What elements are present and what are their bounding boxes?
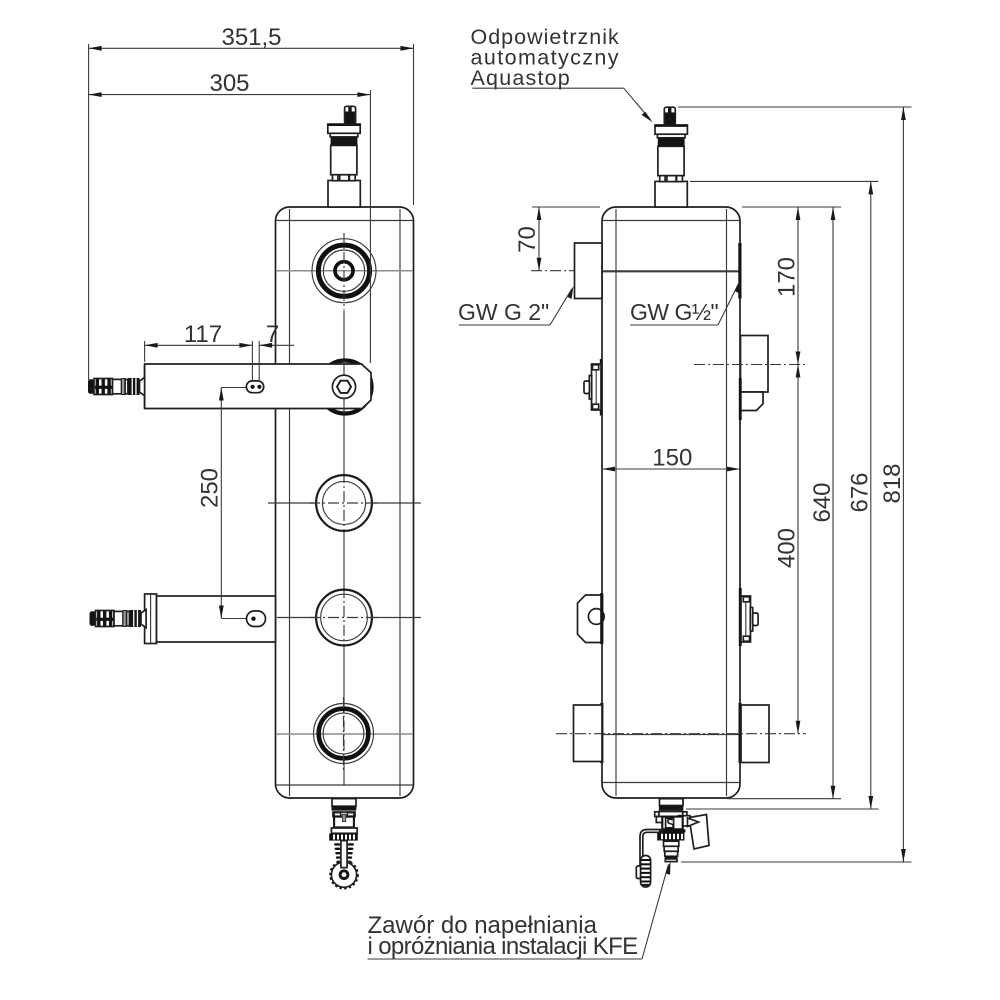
svg-text:GW G½": GW G½" (630, 299, 719, 325)
row centerline mid2 front (277, 617, 317, 619)
svg-text:GW G 2": GW G 2" (458, 299, 549, 325)
svg-text:7: 7 (266, 321, 279, 348)
vessel body side (602, 207, 740, 798)
seam line bottom front (276, 733, 413, 735)
svg-text:Aquastop: Aquastop (471, 66, 571, 90)
svg-text:351,5: 351,5 (221, 24, 281, 51)
svg-text:170: 170 (774, 257, 801, 297)
lower port block side-left (574, 703, 604, 763)
label odpowietrznik (471, 25, 653, 122)
svg-text:818: 818 (879, 463, 906, 503)
dim 170 (694, 207, 841, 365)
seam line top front (276, 270, 413, 272)
dim 640 (727, 207, 841, 799)
thermometer probe upper (88, 378, 145, 396)
row centerline mid1 front (268, 502, 317, 504)
capsule marker lower (247, 611, 266, 627)
dim 305 (89, 70, 371, 363)
dim 351,5 (89, 24, 414, 380)
KFE drain valve side (bottom) (636, 799, 709, 887)
label zawor KFE (368, 862, 671, 961)
svg-text:676: 676 (847, 472, 874, 512)
dim 250 (197, 388, 247, 619)
sensor pocket lower front (145, 594, 276, 644)
weld bar right edge row1 (738, 243, 741, 299)
drain valve front (bottom) (329, 799, 358, 889)
sensor fitting side-right mid (739, 588, 758, 646)
lower port block side-right (739, 703, 770, 763)
capsule marker upper (246, 381, 263, 393)
svg-text:117: 117 (184, 321, 222, 348)
dim 70 (514, 207, 600, 271)
sensor pocket upper front (145, 360, 372, 414)
dim 7 (259, 321, 294, 348)
bracket side-left mid (578, 593, 605, 644)
svg-text:150: 150 (652, 445, 692, 472)
dim 676 (686, 181, 879, 809)
svg-text:400: 400 (774, 528, 801, 568)
svg-text:250: 250 (197, 468, 224, 508)
label GW G 2" (458, 286, 574, 325)
port circle mid2 front (309, 590, 379, 646)
sensor fitting side-left upper (584, 359, 603, 416)
air vent valve front (top) (328, 106, 361, 207)
vertical centerline front (343, 311, 345, 473)
dim 117 (145, 321, 260, 380)
port circle top front (312, 233, 376, 310)
port circle mid1 front (309, 475, 379, 531)
dim 818 (678, 107, 912, 862)
socket GW G2 block side-left (575, 243, 603, 299)
port circle bottom front (314, 697, 374, 770)
thermometer probe lower (90, 610, 147, 628)
dim 400 (556, 365, 806, 734)
seam line top side (603, 270, 740, 272)
svg-text:i opróżniania instalacji KFE: i opróżniania instalacji KFE (368, 933, 638, 960)
svg-text:70: 70 (514, 226, 541, 253)
label GW G 1/2" (630, 280, 740, 325)
vessel body front (276, 207, 414, 798)
svg-text:640: 640 (809, 482, 836, 522)
upper socket block side-right (739, 336, 768, 421)
dim 150 (602, 445, 740, 472)
svg-text:305: 305 (209, 70, 249, 97)
air vent valve side (top) (655, 107, 687, 207)
seam line bottom side (603, 734, 740, 736)
